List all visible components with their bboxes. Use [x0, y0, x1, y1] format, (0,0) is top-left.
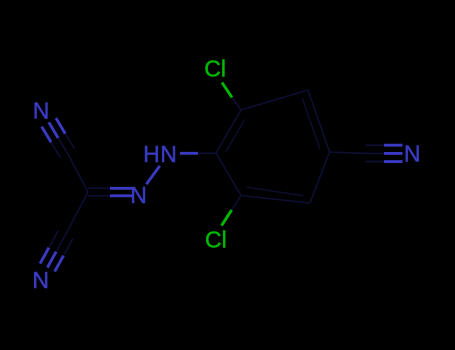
wire Cl bottom to ring — [222, 210, 232, 226]
wire C2-Cb — [66, 192, 88, 235]
nitrile N4 label (right) — [404, 140, 421, 166]
svg-text:N: N — [33, 97, 50, 123]
triple bond C≡N1 (upper-left nitrile) — [42, 118, 75, 158]
wire Cl top to ring — [222, 83, 232, 98]
svg-text:N: N — [32, 267, 49, 293]
nitrile N3 label (bottom-left) — [32, 267, 49, 293]
svg-text:H: H — [143, 141, 160, 167]
hydrazone N label — [130, 182, 147, 208]
triple bond C≡N3 (lower-left nitrile) — [40, 231, 73, 272]
svg-text:Cl: Cl — [204, 55, 226, 81]
svg-text:N: N — [130, 182, 147, 208]
wire N-N — [146, 166, 159, 184]
Cl top label — [204, 55, 226, 81]
svg-text:N: N — [404, 140, 421, 166]
svg-text:Cl: Cl — [205, 227, 227, 253]
wire C2-Ca — [68, 153, 88, 192]
svg-text:N: N — [160, 141, 177, 167]
wire NH to ring — [180, 152, 198, 155]
double bond C2=Nh — [88, 188, 132, 196]
triple bond C≡N4 (right nitrile) — [366, 145, 403, 161]
nitrile N1 label (top-left) — [33, 97, 50, 123]
wire ring to nitrile C — [330, 152, 366, 153]
HN label — [143, 141, 177, 167]
benzene ring — [216, 90, 330, 203]
Cl bottom label — [205, 227, 227, 253]
